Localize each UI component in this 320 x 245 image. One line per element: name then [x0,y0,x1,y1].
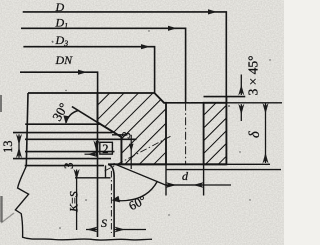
S dimension arrows [86,229,97,231]
lip layer line L1 [25,123,99,125]
bolt hole centerline [185,103,187,165]
arrow on D3 [141,44,150,49]
lip layer line L5 [13,158,111,160]
30 deg flare cone line [72,107,122,138]
delta dimension line [265,104,267,164]
lip layer line L3 [25,138,137,140]
ring top face extension to delta [164,102,282,104]
lip bottom line L6 [25,165,104,167]
3x45 chamfer dim lower arrow [240,104,242,121]
svg-text:2: 2 [102,142,108,156]
30 deg arc arrowhead [63,115,69,123]
svg-text:DN: DN [55,53,74,67]
lip layer line L2 with 13-dim extension [13,132,113,134]
flange right edge upper [225,97,227,103]
small right arrow at lip bottom [85,153,97,155]
pipe bore line below flange [97,93,99,237]
pipe outer wall below flange [113,176,115,237]
flange bottom extension for delta [226,163,270,165]
dimension D leader [23,12,227,103]
arrow on D1 [168,26,177,31]
scan specks [59,30,270,229]
svg-text:S: S [101,216,107,230]
flared lip left break edge [26,93,28,166]
30 deg angle arc [66,111,78,123]
lip lower edge tick [75,177,111,179]
3x45 chamfer dim arrow [240,75,242,96]
svg-text:13: 13 [1,141,15,154]
small down arrowhead on stem [129,144,134,152]
scan edge smudges [1,41,53,223]
flange upper hatched block [98,93,167,164]
bolt hole top edge (white gap) [166,102,204,104]
fillet bottom corner [108,164,114,176]
flare outer stub [105,166,107,179]
dimension DN leader [20,72,98,93]
svg-text:D: D [55,0,65,14]
dimension D3 leader [23,47,154,93]
svg-text:K=S: K=S [67,191,81,213]
60 deg line [114,164,169,187]
break zigzag outline [15,166,152,240]
3 dim arrow (lip) [95,141,97,157]
dimension D1 leader [21,28,186,103]
svg-text:δ: δ [247,131,263,138]
d dimension extension lines [166,164,204,195]
flange outer hatched block [204,103,227,165]
lower face line under bolt hole [166,169,281,171]
13 dimension line [18,134,20,157]
3 dim small stem near lip edge [130,135,132,169]
K=S dimension stem [76,170,78,231]
3-dim upper extension at lip [112,134,128,136]
d dimension line [166,184,204,186]
flange bottom face [108,163,226,165]
60 deg arc arrowhead [112,196,121,203]
svg-text:d: d [182,169,189,183]
svg-text:3 × 45°: 3 × 45° [246,55,261,95]
flare lip end vertical [120,137,122,164]
arrow on D [208,9,217,14]
flange ring top step line [204,96,246,98]
gasket face top line [28,92,98,94]
arrow on DN [78,70,87,75]
pipe wall centerline dash-dot [110,171,112,233]
svg-text:3: 3 [61,163,76,170]
60 deg angle arc [117,181,158,201]
60 deg dash-dot cone axis [105,136,172,171]
lip layer line L4 with 13-dim extension [25,151,115,153]
box around 2 [100,142,113,154]
